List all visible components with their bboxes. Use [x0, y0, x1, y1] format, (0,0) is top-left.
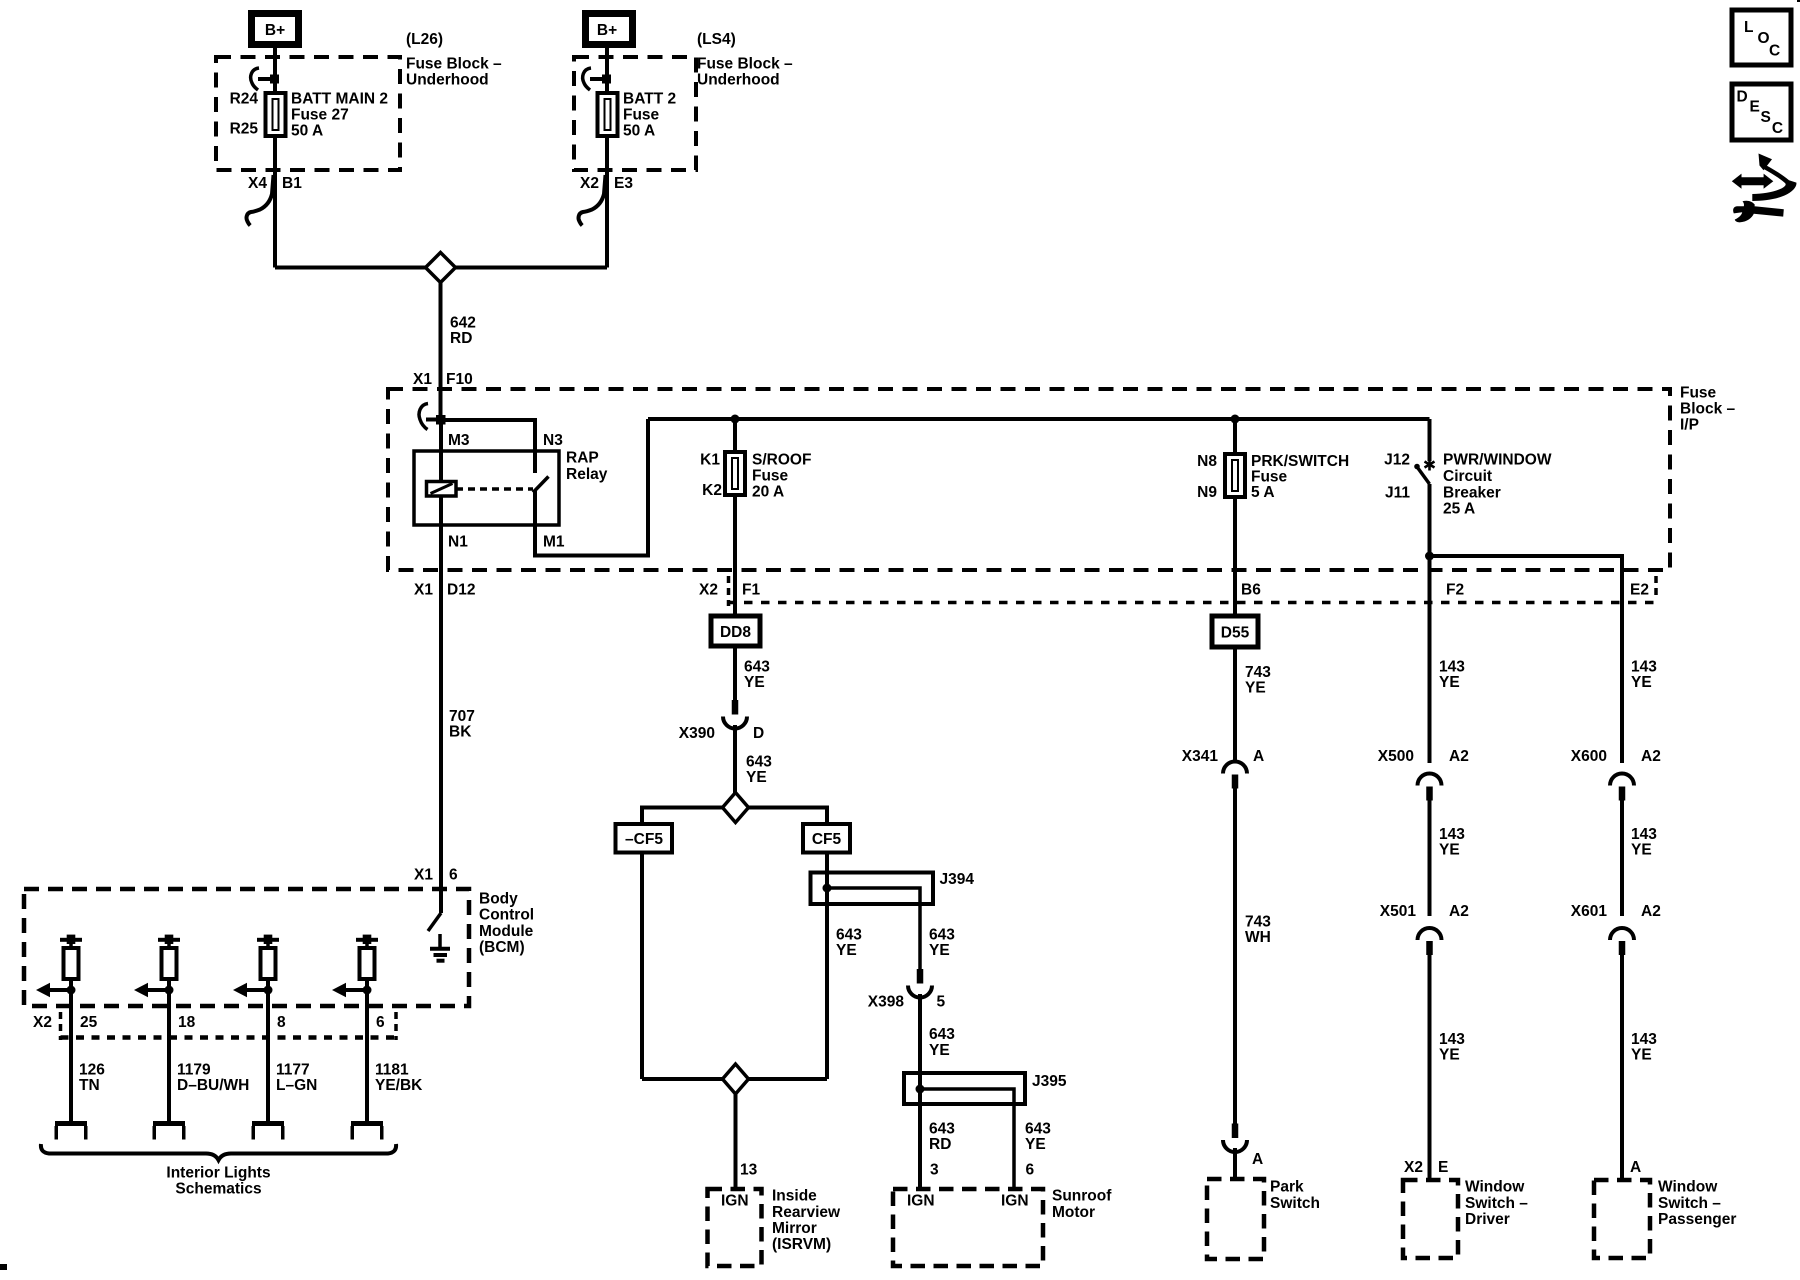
- connector X600 pin A2: [1610, 774, 1634, 786]
- junction dot at PRK/SWITCH fuse tap: [1231, 415, 1240, 424]
- svg-text:5: 5: [937, 993, 946, 1010]
- svg-text:1177: 1177: [276, 1062, 310, 1079]
- wire to PWR/WINDOW circuit breaker: [1428, 419, 1432, 461]
- wire B+ left vertical: [273, 44, 277, 96]
- svg-text:BATT 2: BATT 2: [623, 91, 676, 108]
- svg-text:R25: R25: [230, 121, 259, 138]
- connector to park switch pin A: [1232, 1124, 1239, 1139]
- junction dot in J395: [916, 1085, 925, 1094]
- svg-text:642: 642: [450, 315, 476, 332]
- relay switch blade: [533, 477, 549, 493]
- svg-text:YE: YE: [744, 674, 765, 691]
- ground symbol inside BCM: [438, 934, 442, 949]
- connector CF5: [803, 824, 850, 853]
- wire M1 relay output to bus: [535, 419, 648, 556]
- svg-text:8: 8: [277, 1014, 286, 1031]
- svg-text:Block –: Block –: [1680, 401, 1736, 418]
- svg-text:YE/BK: YE/BK: [375, 1077, 423, 1094]
- svg-text:D: D: [753, 725, 764, 742]
- connector X501 pin A2: [1418, 928, 1442, 940]
- svg-text:20 A: 20 A: [752, 483, 784, 500]
- svg-text:6: 6: [1026, 1161, 1035, 1178]
- curved arrow icon: [1759, 154, 1773, 171]
- svg-text:643: 643: [836, 927, 862, 944]
- svg-text:A: A: [1253, 748, 1264, 765]
- svg-text:S/ROOF: S/ROOF: [752, 451, 811, 468]
- connector X2 dotted strip of fuse block I/P: [727, 601, 1656, 605]
- arrow (to other circuits) at driver 1: [48, 988, 71, 992]
- arrow (to other circuits) at driver 4: [344, 988, 367, 992]
- svg-text:(L26): (L26): [406, 31, 443, 48]
- svg-text:B+: B+: [265, 22, 285, 39]
- svg-text:K1: K1: [700, 451, 720, 468]
- svg-text:1179: 1179: [177, 1062, 211, 1079]
- svg-text:643: 643: [744, 658, 770, 675]
- svg-text:Inside: Inside: [772, 1188, 817, 1205]
- svg-text:B6: B6: [1241, 582, 1261, 599]
- junction dot driver 4: [363, 986, 372, 995]
- wire down to window switch driver: [1428, 942, 1432, 1180]
- connector hook at right B+ fuse input: [583, 68, 591, 90]
- svg-text:M3: M3: [448, 432, 470, 449]
- svg-text:Body: Body: [479, 890, 518, 907]
- svg-text:13: 13: [740, 1161, 758, 1178]
- svg-text:M1: M1: [543, 534, 565, 551]
- svg-text:143: 143: [1631, 1031, 1657, 1048]
- wire from driver 3 down to interior lights pigtail: [266, 979, 270, 1121]
- bus wire across fuse block I/P: [648, 417, 1430, 421]
- page artifact speck top right: [1797, 0, 1800, 2]
- svg-text:YE: YE: [1631, 674, 1652, 691]
- svg-text:X500: X500: [1378, 748, 1414, 765]
- svg-text:25: 25: [80, 1014, 98, 1031]
- svg-text:Schematics: Schematics: [175, 1181, 261, 1198]
- splice diamond joining B+ feeds: [426, 253, 456, 283]
- svg-text:50 A: 50 A: [291, 123, 323, 140]
- svg-text:Park: Park: [1270, 1179, 1304, 1196]
- fuse BATT MAIN 2 Fuse 27 50 A: [266, 93, 286, 136]
- svg-text:B+: B+: [597, 22, 617, 39]
- svg-text:Switch –: Switch –: [1465, 1195, 1528, 1212]
- wire from driver 1 down to interior lights pigtail: [69, 979, 73, 1121]
- svg-text:DD8: DD8: [720, 624, 751, 641]
- svg-text:X601: X601: [1571, 903, 1608, 920]
- LOC legend box: [1732, 10, 1791, 65]
- connector X601 pin A2: [1610, 928, 1634, 940]
- svg-text:C: C: [1769, 42, 1780, 59]
- fuse S/ROOF 20 A: [725, 452, 745, 495]
- svg-text:BK: BK: [449, 724, 472, 741]
- svg-text:BATT MAIN 2: BATT MAIN 2: [291, 91, 388, 108]
- svg-text:D12: D12: [447, 582, 475, 599]
- double-headed arrow icon: [1741, 177, 1764, 185]
- junction dot driver 2: [165, 986, 174, 995]
- body control module dashed box: [24, 889, 469, 1006]
- wire horizontal joining both B+ feeds: [275, 266, 607, 270]
- svg-text:YE: YE: [1439, 1047, 1460, 1064]
- svg-text:WH: WH: [1245, 929, 1271, 946]
- circuit breaker PWR/WINDOW 25 A: [1428, 459, 1431, 471]
- svg-text:L–GN: L–GN: [276, 1077, 317, 1094]
- junction dot at S/ROOF fuse tap: [731, 415, 740, 424]
- svg-text:YE: YE: [746, 769, 767, 786]
- svg-text:J11: J11: [1385, 485, 1410, 502]
- junction F10 node: [436, 415, 446, 425]
- svg-text:6: 6: [449, 866, 458, 883]
- svg-text:PWR/WINDOW: PWR/WINDOW: [1443, 452, 1552, 469]
- wire from PRK/SWITCH fuse to D55: [1233, 495, 1237, 616]
- svg-text:YE: YE: [836, 942, 857, 959]
- wire 743 WH: [1233, 788, 1237, 1124]
- BCM connector X2 separators and dotted strip: [59, 1012, 63, 1040]
- svg-text:YE: YE: [929, 1042, 950, 1059]
- svg-text:Fuse: Fuse: [1251, 469, 1288, 486]
- in-line connector D55: [1212, 616, 1258, 647]
- wire M3 coil feed / N1 / 707 BK down to BCM: [439, 420, 443, 913]
- BCM driver output 1 top tick: [60, 938, 82, 942]
- svg-text:A: A: [1630, 1159, 1641, 1176]
- inside rearview mirror ISRVM dashed box: [708, 1189, 762, 1266]
- svg-text:N8: N8: [1197, 453, 1217, 470]
- wire below D55: [1233, 647, 1237, 762]
- wire into park switch: [1233, 1148, 1237, 1179]
- window switch passenger dashed box: [1594, 1180, 1650, 1258]
- svg-text:O: O: [1758, 30, 1770, 47]
- in-line connector DD8: [711, 616, 760, 646]
- wire right branch to CF5: [749, 808, 828, 825]
- wire below DD8: [733, 646, 737, 701]
- connector hook at left B+ fuse input: [251, 68, 259, 90]
- svg-text:Fuse Block –: Fuse Block –: [406, 56, 502, 73]
- svg-text:RD: RD: [929, 1136, 951, 1153]
- wire to PRK/SWITCH fuse: [1233, 419, 1237, 456]
- svg-text:143: 143: [1631, 658, 1657, 675]
- svg-text:C: C: [1772, 120, 1783, 137]
- svg-text:743: 743: [1245, 914, 1271, 931]
- svg-text:Fuse: Fuse: [623, 107, 660, 124]
- svg-text:PRK/SWITCH: PRK/SWITCH: [1251, 453, 1349, 470]
- wire through J395 to sunroof motor pin 3: [918, 1070, 922, 1189]
- svg-text:X2: X2: [699, 582, 718, 599]
- svg-text:Mirror: Mirror: [772, 1220, 817, 1237]
- svg-text:Module: Module: [479, 923, 534, 940]
- wire down to window switch passenger: [1620, 942, 1624, 1180]
- wire between X500 and X501: [1428, 788, 1432, 916]
- junction dot driver 1: [67, 986, 76, 995]
- svg-text:Interior Lights: Interior Lights: [166, 1164, 270, 1181]
- wire from driver 4 down to interior lights pigtail: [365, 979, 369, 1121]
- page artifact dot bottom left: [0, 1264, 7, 1270]
- svg-text:E2: E2: [1630, 582, 1649, 599]
- wire through J394 down-left branch: [640, 852, 644, 1079]
- svg-text:A2: A2: [1641, 903, 1661, 920]
- svg-text:Fuse 27: Fuse 27: [291, 107, 349, 124]
- BCM driver output 4 top tick: [356, 938, 378, 942]
- svg-text:X390: X390: [679, 725, 715, 742]
- svg-text:B1: B1: [282, 175, 302, 192]
- splice diamond to CF5 branches: [723, 793, 749, 823]
- svg-text:X1: X1: [414, 582, 433, 599]
- svg-text:Control: Control: [479, 907, 534, 924]
- svg-text:A2: A2: [1449, 903, 1469, 920]
- connector X390 pin D: [732, 700, 739, 715]
- splice pack J394: [811, 873, 934, 905]
- svg-text:707: 707: [449, 708, 475, 725]
- svg-text:I/P: I/P: [1680, 417, 1699, 434]
- fuse block underhood (left) dashed box: [216, 57, 400, 170]
- wire left branch to -CF5: [642, 808, 723, 825]
- svg-text:Motor: Motor: [1052, 1204, 1095, 1221]
- svg-text:(ISRVM): (ISRVM): [772, 1236, 831, 1253]
- svg-text:Fuse: Fuse: [752, 467, 789, 484]
- svg-text:IGN: IGN: [1001, 1193, 1029, 1210]
- splice diamond rejoining CF5 branches: [723, 1064, 749, 1094]
- svg-text:RD: RD: [450, 330, 472, 347]
- svg-text:J395: J395: [1032, 1073, 1067, 1090]
- svg-text:Sunroof: Sunroof: [1052, 1188, 1112, 1205]
- svg-text:Switch: Switch: [1270, 1195, 1320, 1212]
- svg-text:YE: YE: [1631, 842, 1652, 859]
- svg-text:YE: YE: [1631, 1047, 1652, 1064]
- relay dashed actuation link: [456, 487, 533, 491]
- svg-text:X341: X341: [1182, 748, 1219, 765]
- svg-text:N1: N1: [448, 534, 468, 551]
- svg-text:A2: A2: [1449, 748, 1469, 765]
- svg-text:F10: F10: [446, 371, 473, 388]
- connector hook at F10 inside fuse block: [419, 404, 428, 430]
- junction dot breaker output: [1425, 552, 1434, 561]
- svg-text:6: 6: [376, 1014, 385, 1031]
- svg-text:IGN: IGN: [907, 1193, 935, 1210]
- fuse PRK/SWITCH 5 A: [1225, 454, 1245, 497]
- svg-text:5 A: 5 A: [1251, 484, 1275, 501]
- svg-text:50 A: 50 A: [623, 123, 655, 140]
- wire from driver 2 down to interior lights pigtail: [167, 979, 171, 1121]
- svg-text:R24: R24: [230, 91, 259, 108]
- svg-text:(LS4): (LS4): [697, 31, 736, 48]
- svg-text:N9: N9: [1197, 484, 1217, 501]
- svg-text:CF5: CF5: [812, 831, 842, 848]
- svg-text:N3: N3: [543, 432, 563, 449]
- svg-text:YE: YE: [1439, 842, 1460, 859]
- connector squiggle below X4 B1: [247, 175, 274, 226]
- svg-text:643: 643: [929, 927, 955, 944]
- svg-text:143: 143: [1439, 826, 1465, 843]
- svg-text:(BCM): (BCM): [479, 939, 525, 956]
- wire to S/ROOF fuse: [733, 419, 737, 454]
- svg-text:Window: Window: [1465, 1179, 1525, 1196]
- svg-text:F1: F1: [742, 582, 760, 599]
- svg-text:K2: K2: [702, 482, 722, 499]
- resistor (driver) 3 in BCM: [266, 942, 270, 948]
- svg-text:E3: E3: [614, 175, 633, 192]
- svg-text:IGN: IGN: [721, 1193, 749, 1210]
- svg-text:L: L: [1744, 19, 1753, 36]
- sunroof motor dashed box: [893, 1189, 1043, 1266]
- svg-text:F2: F2: [1446, 582, 1464, 599]
- svg-text:Fuse Block –: Fuse Block –: [697, 56, 793, 73]
- svg-text:TN: TN: [79, 1077, 100, 1094]
- svg-text:X1: X1: [413, 371, 432, 388]
- svg-text:Passenger: Passenger: [1658, 1211, 1736, 1228]
- svg-text:–CF5: –CF5: [625, 831, 663, 848]
- wire right B+ vertical: [605, 44, 609, 96]
- BCM driver output 2 top tick: [158, 938, 180, 942]
- svg-text:X600: X600: [1571, 748, 1607, 765]
- svg-text:X2: X2: [33, 1014, 52, 1031]
- wire between X600 and X601: [1620, 788, 1624, 916]
- wire to ISRVM pin 13: [734, 1094, 738, 1189]
- RAP relay box: [414, 451, 559, 525]
- svg-text:X2: X2: [1404, 1159, 1423, 1176]
- svg-text:143: 143: [1439, 658, 1465, 675]
- battery terminal B+ (left): [252, 14, 299, 45]
- svg-text:643: 643: [929, 1026, 955, 1043]
- svg-text:Circuit: Circuit: [1443, 468, 1492, 485]
- svg-text:X1: X1: [414, 866, 433, 883]
- svg-text:D: D: [1737, 88, 1748, 105]
- park switch dashed box: [1207, 1179, 1264, 1259]
- svg-text:A2: A2: [1641, 748, 1661, 765]
- svg-text:YE: YE: [1245, 680, 1266, 697]
- svg-text:Fuse: Fuse: [1680, 385, 1717, 402]
- fuse BATT 2 50 A: [598, 93, 618, 136]
- wire N3 feed to RAP relay switch: [441, 420, 535, 473]
- svg-text:3: 3: [930, 1161, 939, 1178]
- window switch driver dashed box: [1403, 1180, 1458, 1258]
- wire below X398: [918, 994, 922, 1073]
- pigtail terminal 1: [55, 1121, 87, 1126]
- BCM driver output 3 top tick: [257, 938, 279, 942]
- svg-text:Window: Window: [1658, 1179, 1718, 1196]
- connector squiggle below X2 E3: [579, 175, 606, 226]
- relay coil: [427, 482, 457, 497]
- resistor (driver) 1 in BCM: [69, 942, 73, 948]
- connector X341 pin A: [1223, 762, 1247, 774]
- svg-text:643: 643: [929, 1120, 955, 1137]
- pigtail terminal 3: [252, 1121, 284, 1126]
- svg-text:S: S: [1761, 109, 1771, 126]
- svg-text:E: E: [1438, 1159, 1448, 1176]
- junction dot in J394: [823, 884, 832, 893]
- resistor (driver) 2 in BCM: [167, 942, 171, 948]
- wire from breaker down through F2: [1428, 484, 1432, 763]
- svg-text:643: 643: [1025, 1120, 1051, 1137]
- J394 internal tap wire: [827, 888, 920, 969]
- svg-text:143: 143: [1439, 1031, 1465, 1048]
- wire below X390: [733, 725, 737, 793]
- arrow (to other circuits) at driver 2: [146, 988, 169, 992]
- svg-text:X398: X398: [868, 993, 905, 1010]
- svg-text:YE: YE: [929, 942, 950, 959]
- junction dot driver 3: [264, 986, 273, 995]
- resistor (driver) 4 in BCM: [365, 942, 369, 948]
- connector -CF5: [616, 824, 673, 853]
- fuse block underhood (right) dashed box: [574, 57, 696, 170]
- svg-text:J394: J394: [940, 871, 975, 888]
- svg-text:E: E: [1750, 99, 1760, 116]
- connector X398 pin 5: [917, 969, 924, 984]
- svg-text:Switch –: Switch –: [1658, 1195, 1721, 1212]
- wire branch to E2: [1430, 556, 1623, 763]
- J395 internal tap wire to pin 6: [920, 1089, 1014, 1189]
- svg-text:Underhood: Underhood: [406, 72, 489, 89]
- connector X500 pin A2: [1418, 774, 1442, 786]
- svg-text:X501: X501: [1380, 903, 1417, 920]
- splice pack J395: [904, 1073, 1025, 1104]
- wire from S/ROOF fuse to DD8: [733, 493, 737, 616]
- svg-text:Relay: Relay: [566, 466, 608, 483]
- svg-text:YE: YE: [1439, 674, 1460, 691]
- arrow (to other circuits) at driver 3: [245, 988, 268, 992]
- fuse block I/P dashed box: [388, 389, 1670, 570]
- svg-text:A: A: [1252, 1151, 1263, 1168]
- wire 642 RD down to fuse block I/P: [439, 268, 443, 421]
- svg-text:1181: 1181: [375, 1062, 409, 1079]
- svg-text:18: 18: [178, 1014, 196, 1031]
- svg-text:643: 643: [746, 753, 772, 770]
- svg-text:RAP: RAP: [566, 450, 599, 467]
- BCM internal switch contact: [428, 913, 441, 931]
- svg-text:Driver: Driver: [1465, 1211, 1510, 1228]
- brace for interior lights schematics: [41, 1144, 396, 1160]
- svg-text:X4: X4: [248, 175, 267, 192]
- svg-text:J12: J12: [1384, 452, 1410, 469]
- svg-text:D–BU/WH: D–BU/WH: [177, 1077, 249, 1094]
- svg-text:YE: YE: [1025, 1136, 1046, 1153]
- svg-text:X2: X2: [580, 175, 599, 192]
- DESC legend box: [1732, 84, 1791, 140]
- svg-text:D55: D55: [1221, 625, 1250, 642]
- svg-text:Rearview: Rearview: [772, 1204, 841, 1221]
- svg-text:743: 743: [1245, 664, 1271, 681]
- battery terminal B+ (right): [586, 14, 633, 45]
- pigtail terminal 2: [153, 1121, 185, 1126]
- svg-text:143: 143: [1631, 826, 1657, 843]
- pigtail terminal 4: [351, 1121, 383, 1126]
- wire bottom branches to diamond: [642, 1077, 723, 1081]
- svg-text:25 A: 25 A: [1443, 501, 1475, 518]
- svg-text:Underhood: Underhood: [697, 72, 780, 89]
- svg-text:126: 126: [79, 1062, 105, 1079]
- svg-text:Breaker: Breaker: [1443, 484, 1501, 501]
- wrench icon: [1733, 201, 1784, 223]
